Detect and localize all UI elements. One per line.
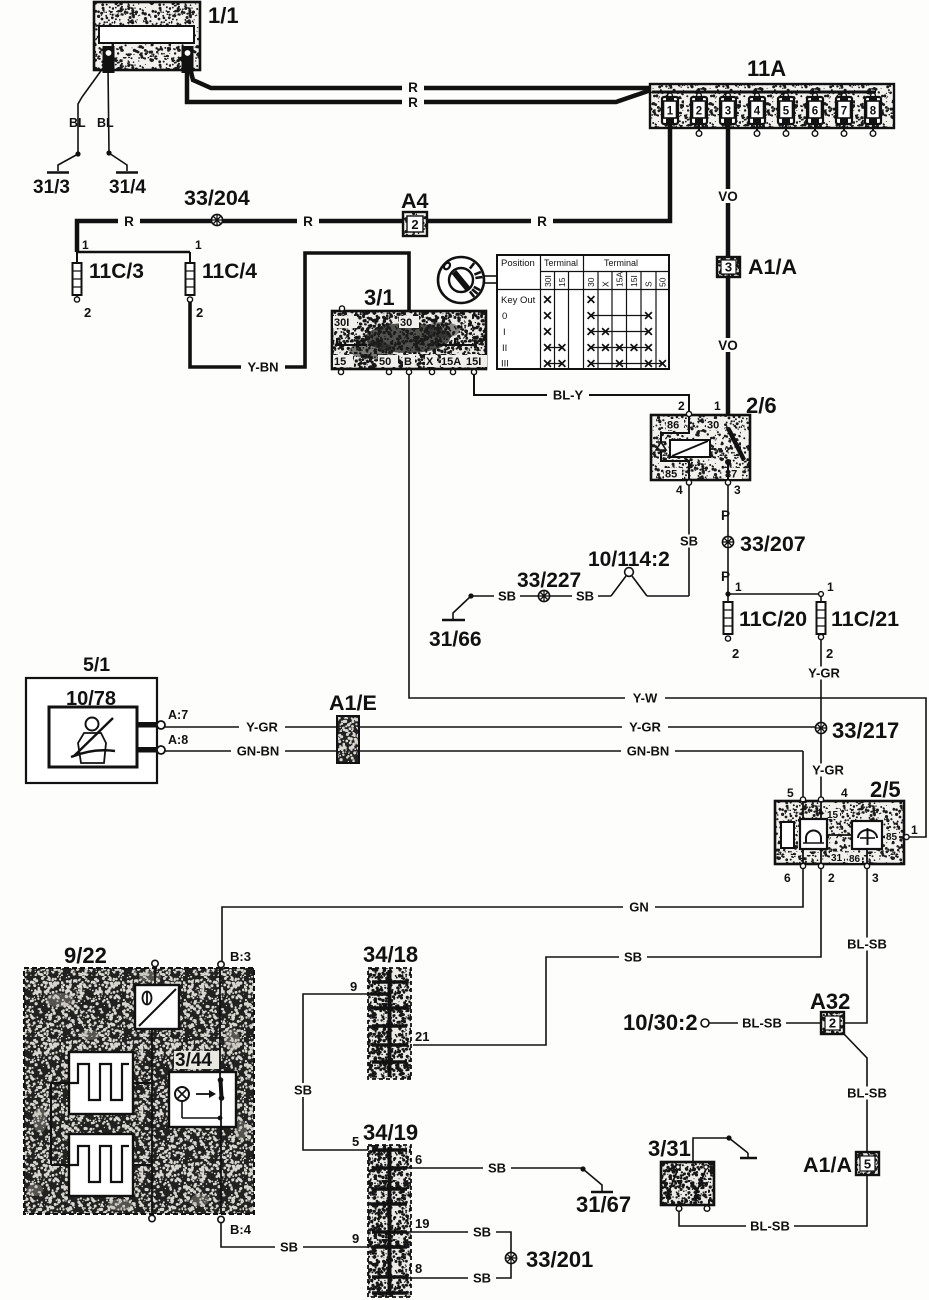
- label R (left): [118, 214, 140, 229]
- label SB (vertical wire): [677, 534, 701, 549]
- svg-text:BL: BL: [97, 116, 114, 130]
- svg-text:33/207: 33/207: [740, 532, 806, 556]
- connector 11C/3: [73, 252, 144, 320]
- svg-text:A32: A32: [810, 989, 850, 1014]
- svg-text:11C/3: 11C/3: [89, 260, 144, 283]
- 2/5 pin labels: [784, 786, 918, 885]
- svg-text:15: 15: [334, 356, 346, 368]
- svg-text:31/66: 31/66: [429, 628, 482, 651]
- label BL-SB (10/30:2): [738, 1016, 786, 1031]
- svg-text:50: 50: [379, 356, 391, 368]
- svg-text:15: 15: [557, 277, 567, 287]
- svg-text:5: 5: [787, 786, 794, 800]
- svg-text:3/44: 3/44: [175, 1050, 212, 1071]
- svg-text:11C/20: 11C/20: [739, 607, 807, 631]
- wire BL-SB A1/A to 3/31: [679, 1175, 867, 1226]
- svg-text:2/6: 2/6: [746, 393, 777, 418]
- svg-text:2: 2: [696, 106, 702, 118]
- wire BL-Y 3/1:15I to 2/6:2: [474, 374, 689, 412]
- svg-text:B:3: B:3: [230, 949, 251, 964]
- wire VO fuse 3 to A1/A: [726, 124, 731, 257]
- wire SB B:4 to 34/19:9: [221, 1223, 367, 1247]
- svg-text:2: 2: [84, 305, 91, 320]
- svg-text:11C/21: 11C/21: [831, 607, 899, 631]
- svg-text:SB: SB: [473, 1225, 491, 1240]
- svg-text:2: 2: [196, 305, 203, 320]
- label SB (right of 33/227): [572, 589, 598, 604]
- svg-text:30: 30: [400, 317, 412, 329]
- svg-text:Y-W: Y-W: [633, 691, 658, 706]
- heating element 1: [69, 1052, 133, 1114]
- wire SB 2/6:4 down: [688, 485, 690, 596]
- svg-text:BL: BL: [69, 116, 86, 130]
- fuse 2: [691, 92, 707, 136]
- svg-text:A1/A: A1/A: [748, 255, 797, 279]
- ground rail 34/19: [352, 1120, 429, 1297]
- warning lamp unit 10/78: [49, 688, 137, 767]
- wire GN-BN A:8 to 2/5:5: [165, 751, 803, 798]
- svg-text:86: 86: [667, 420, 679, 432]
- label BL-SB (mid): [843, 1086, 891, 1101]
- 2/6 relay coil: [661, 416, 710, 480]
- svg-text:8: 8: [415, 1261, 422, 1276]
- label BL-SB (lower): [746, 1219, 794, 1234]
- svg-text:4: 4: [841, 786, 848, 800]
- svg-text:33/201: 33/201: [526, 1247, 593, 1272]
- 2/6 diode: [656, 442, 666, 450]
- svg-text:BL-Y: BL-Y: [553, 388, 584, 403]
- wire Y-W 3/1:B to 2/5:1: [409, 374, 926, 837]
- label SB (upper run): [619, 950, 647, 965]
- terminal B:3: [218, 949, 251, 968]
- wire SB 2/5:2 to 34/18:21: [413, 868, 821, 1045]
- fuse 3: [720, 92, 736, 124]
- battery 1/1: [94, 2, 200, 70]
- connector A4 pin 2: [401, 189, 429, 236]
- svg-text:15I: 15I: [629, 275, 639, 287]
- wire Y-GR A:7 to splice 33/217: [165, 726, 816, 728]
- 2/6 pin labels: [676, 399, 741, 497]
- terminal 10/30:2: [623, 1010, 709, 1035]
- svg-text:SB: SB: [473, 1271, 491, 1286]
- 2/6 pin 3 node: [725, 459, 731, 480]
- svg-text:15: 15: [827, 810, 839, 821]
- svg-text:10/30:2: 10/30:2: [623, 1010, 698, 1035]
- label SB (pin 6): [483, 1161, 511, 1176]
- 3/31 pin circles: [676, 1206, 710, 1212]
- svg-text:31: 31: [831, 853, 843, 864]
- label GN-BN (left): [231, 744, 285, 759]
- svg-text:34/18: 34/18: [363, 942, 418, 967]
- svg-text:X: X: [601, 281, 611, 287]
- svg-text:Y-BN: Y-BN: [247, 360, 278, 375]
- svg-text:30: 30: [586, 277, 596, 287]
- svg-text:15I: 15I: [466, 356, 481, 368]
- svg-text:BL-SB: BL-SB: [750, 1219, 790, 1234]
- svg-text:2: 2: [732, 646, 739, 661]
- wire VO A1/A to relay 2/6: [726, 277, 731, 428]
- label SB (left of 33/227): [494, 589, 520, 604]
- svg-text:Terminal: Terminal: [544, 258, 578, 268]
- svg-text:VO: VO: [718, 338, 738, 353]
- connector 11C/21: [817, 596, 900, 661]
- 3/31 switch to ground: [693, 1135, 757, 1162]
- label Y-GR: [802, 666, 846, 681]
- wire BL-SB 10/30:2 to A32: [709, 1022, 820, 1024]
- wire SB 34/19:6 to 31/67: [407, 1167, 583, 1169]
- fuse 8: [865, 92, 881, 136]
- svg-text:SB: SB: [294, 1083, 312, 1098]
- svg-text:33/227: 33/227: [517, 569, 581, 592]
- svg-text:II: II: [502, 343, 507, 354]
- fuse 4: [749, 92, 765, 136]
- label Y-GR (lower): [806, 763, 850, 778]
- seat belt icon: [71, 718, 115, 764]
- wire R battery to 11A (upper): [189, 64, 651, 88]
- splice 33/201: [505, 1247, 593, 1272]
- svg-text:30: 30: [707, 420, 719, 432]
- svg-text:B:4: B:4: [230, 1222, 252, 1237]
- svg-text:SB: SB: [498, 589, 516, 604]
- wire pins 1 of 11C/3-11C/4: [77, 238, 202, 252]
- svg-text:9: 9: [352, 1231, 359, 1246]
- label BL-Y: [547, 388, 589, 403]
- svg-text:31/3: 31/3: [33, 177, 70, 198]
- label BL-SB (upper): [843, 937, 891, 952]
- connector 11C/4: [186, 252, 258, 320]
- svg-text:VO: VO: [718, 189, 738, 204]
- svg-text:R: R: [408, 80, 418, 95]
- 3/1 bottom pin circles: [338, 369, 476, 374]
- label VO (upper): [715, 189, 741, 204]
- svg-text:SB: SB: [280, 1240, 298, 1255]
- 5/1 pin A:8: [137, 733, 188, 754]
- label R (mid): [297, 214, 319, 229]
- connector A1/A pin 3: [717, 255, 797, 279]
- thermostat top stub: [152, 960, 158, 985]
- svg-text:2: 2: [829, 1016, 836, 1031]
- bus wire inside 11A: [652, 91, 876, 94]
- ignition key symbol: [438, 257, 497, 303]
- label R (right): [531, 214, 553, 229]
- node junction 31/3: [75, 151, 80, 156]
- svg-text:BL-SB: BL-SB: [847, 937, 887, 952]
- svg-text:R: R: [537, 214, 547, 229]
- svg-text:4: 4: [676, 483, 683, 497]
- ground 31/67: [576, 1169, 631, 1217]
- svg-text:4: 4: [754, 106, 761, 118]
- svg-text:15A: 15A: [615, 272, 625, 287]
- svg-text:1: 1: [82, 238, 89, 252]
- svg-text:BL-SB: BL-SB: [847, 1086, 887, 1101]
- svg-text:31/67: 31/67: [576, 1192, 631, 1217]
- node junction: [468, 593, 473, 598]
- wire P to 11C/20: [721, 548, 730, 594]
- svg-text:34/19: 34/19: [363, 1120, 418, 1145]
- svg-text:10/78: 10/78: [66, 688, 116, 710]
- ignition switch 3/1: [332, 311, 486, 369]
- svg-text:P: P: [721, 508, 730, 523]
- label SB (pin 19): [468, 1225, 496, 1240]
- svg-text:Terminal: Terminal: [604, 258, 638, 268]
- terminal 10/114:2: [588, 548, 670, 596]
- svg-text:5/1: 5/1: [83, 654, 110, 676]
- buzzer relay 2/5: [775, 801, 904, 864]
- svg-text:8: 8: [870, 106, 877, 118]
- svg-text:85: 85: [665, 469, 677, 481]
- node junction: [580, 1166, 585, 1171]
- svg-text:2: 2: [826, 646, 833, 661]
- svg-text:31/4: 31/4: [109, 177, 146, 198]
- label SB (pin 8): [468, 1271, 496, 1286]
- svg-text:S: S: [644, 281, 654, 287]
- svg-text:A1/E: A1/E: [329, 691, 377, 715]
- svg-text:3: 3: [725, 106, 731, 118]
- svg-text:P: P: [721, 569, 730, 584]
- svg-text:Y-GR: Y-GR: [808, 666, 840, 681]
- svg-text:87: 87: [725, 469, 737, 481]
- svg-text:5: 5: [864, 1157, 871, 1172]
- svg-text:GN-BN: GN-BN: [627, 744, 670, 759]
- label SB (B:4 run): [275, 1240, 303, 1255]
- svg-text:50: 50: [658, 277, 668, 287]
- connector 11C/20: [724, 596, 808, 661]
- instrument cluster 5/1: [26, 654, 157, 783]
- svg-text:6: 6: [784, 871, 791, 885]
- splice 33/207: [722, 532, 805, 556]
- svg-text:11A: 11A: [747, 56, 786, 81]
- relay 2/6: [651, 415, 750, 480]
- wire R from fuse 1: [77, 124, 670, 252]
- ignition position table: [497, 255, 669, 370]
- svg-text:SB: SB: [624, 950, 642, 965]
- fuse 5: [778, 92, 794, 136]
- svg-text:R: R: [408, 95, 418, 110]
- wire to 10/114:2: [647, 595, 689, 597]
- heating element 2: [69, 1134, 133, 1196]
- svg-text:1: 1: [714, 399, 721, 413]
- thermostat: [135, 985, 179, 1029]
- svg-text:R: R: [303, 214, 313, 229]
- wire R battery to 11A (lower): [187, 64, 651, 102]
- ground 31/3: [33, 154, 78, 198]
- label Y-GR (left): [239, 720, 285, 735]
- node 11C/20-21 junction: [725, 580, 834, 597]
- table contact marks: [544, 296, 666, 367]
- fuse 7: [836, 92, 852, 136]
- wire SB splice to 34/19:8: [407, 1264, 511, 1278]
- ground 31/4: [109, 153, 146, 198]
- svg-text:3/1: 3/1: [364, 285, 395, 310]
- svg-text:GN-BN: GN-BN: [237, 744, 280, 759]
- label Y-W: [625, 691, 665, 706]
- connector A1/A pin 5: [803, 1152, 879, 1177]
- svg-text:2: 2: [678, 399, 685, 413]
- svg-text:1: 1: [827, 580, 834, 594]
- battery terminal B+: [183, 47, 193, 72]
- svg-text:15A: 15A: [441, 356, 461, 368]
- svg-text:6: 6: [415, 1152, 422, 1167]
- svg-text:Position: Position: [501, 258, 535, 269]
- svg-text:3: 3: [725, 260, 732, 275]
- 5/1 pin A:7: [137, 708, 188, 729]
- 2/6 internal labels: [664, 419, 742, 481]
- svg-text:2: 2: [828, 871, 835, 885]
- label SB (left run): [289, 1083, 317, 1098]
- 2/6 pin 2 circle: [686, 411, 691, 416]
- svg-text:1: 1: [735, 580, 742, 594]
- fusebox 11A: [650, 84, 894, 128]
- svg-text:11C/4: 11C/4: [202, 260, 257, 283]
- label GN: [623, 900, 655, 915]
- svg-text:SB: SB: [680, 534, 698, 549]
- node junction 31/4: [106, 150, 111, 155]
- 2/6 switch arm (terminal 30 to 87): [711, 428, 744, 460]
- svg-text:A4: A4: [401, 189, 429, 213]
- svg-text:1: 1: [911, 823, 918, 837]
- wire P 2/6:3 to splice: [721, 485, 730, 536]
- svg-text:21: 21: [415, 1029, 429, 1044]
- svg-text:33/204: 33/204: [184, 186, 250, 210]
- svg-text:6: 6: [812, 106, 818, 118]
- svg-text:Y-GR: Y-GR: [812, 763, 844, 778]
- svg-text:2/5: 2/5: [870, 777, 901, 802]
- svg-text:1/1: 1/1: [208, 3, 239, 28]
- label Y-GR (mid): [622, 720, 668, 735]
- ground rail 34/18: [350, 942, 429, 1079]
- svg-text:3/31: 3/31: [648, 1136, 691, 1161]
- svg-text:9: 9: [350, 979, 357, 994]
- seat belt switch 3/31: [648, 1136, 714, 1205]
- svg-text:A:8: A:8: [168, 733, 188, 747]
- svg-text:R: R: [124, 214, 134, 229]
- svg-text:30I: 30I: [334, 317, 349, 329]
- heater unit 9/22 (dashed): [24, 943, 254, 1214]
- label VO (lower): [715, 338, 741, 353]
- wire B:3 to B:4 through 3/44: [218, 968, 225, 1214]
- switch 3/44: [169, 1050, 236, 1127]
- svg-text:2: 2: [411, 217, 418, 232]
- svg-text:0: 0: [502, 311, 507, 322]
- svg-text:X: X: [426, 356, 434, 368]
- svg-text:A:7: A:7: [168, 708, 188, 722]
- wire BL to 31/4: [97, 68, 114, 152]
- wire SB 34/18:9 to 34/19:5: [303, 994, 370, 1150]
- svg-text:III: III: [501, 359, 509, 370]
- wire Y-BN 11C/4 to ignition switch 30: [190, 253, 409, 367]
- 3/1 pin 30I stub: [339, 306, 344, 311]
- svg-text:33/217: 33/217: [832, 718, 899, 743]
- terminal B:4: [218, 1216, 252, 1237]
- svg-text:9/22: 9/22: [64, 943, 107, 968]
- svg-text:7: 7: [841, 106, 847, 118]
- battery terminal B-: [104, 47, 114, 72]
- svg-text:A1/A: A1/A: [803, 1153, 852, 1177]
- svg-text:5: 5: [783, 106, 790, 118]
- svg-text:5: 5: [352, 1134, 359, 1149]
- svg-text:Key Out: Key Out: [501, 295, 536, 306]
- connector A32 pin 2: [810, 989, 850, 1034]
- svg-text:3: 3: [872, 871, 879, 885]
- element bus wires: [51, 1083, 152, 1165]
- svg-text:19: 19: [415, 1216, 429, 1231]
- 2/5 pin circles: [800, 797, 909, 869]
- 3/31 internals: [666, 1165, 709, 1203]
- svg-text:1: 1: [195, 238, 202, 252]
- svg-text:B: B: [404, 356, 412, 368]
- svg-text:10/114:2: 10/114:2: [588, 548, 670, 571]
- svg-text:GN: GN: [629, 900, 649, 915]
- wire Y-GR 33/217 to 2/5:4: [820, 734, 822, 798]
- svg-text:SB: SB: [488, 1161, 506, 1176]
- thermostat to bottom wire: [149, 1029, 155, 1222]
- svg-text:3: 3: [734, 483, 741, 497]
- wire BL to 31/3: [69, 68, 103, 152]
- wire GN 2/5:6 to B:3 rail: [222, 868, 803, 961]
- connector A1/E: [329, 691, 377, 763]
- wire BL-SB A32 to A1/A: [844, 1034, 867, 1152]
- wire Y-GR 11C/21 to 33/217: [820, 640, 822, 724]
- wire BL-SB 2/5:3 to A32: [845, 868, 867, 1023]
- svg-text:Y-GR: Y-GR: [629, 720, 661, 735]
- fuse 6: [807, 92, 823, 136]
- label GN-BN (mid): [621, 744, 675, 759]
- 3/1 terminal labels: [333, 316, 487, 368]
- label R upper: [402, 80, 424, 95]
- ground 31/66: [429, 596, 482, 651]
- wire SB 34/19:19 to splice: [407, 1232, 511, 1252]
- label R lower: [402, 95, 424, 110]
- svg-text:86: 86: [849, 854, 861, 865]
- splice 33/217: [815, 718, 899, 743]
- svg-text:1: 1: [667, 106, 674, 118]
- splice 33/204: [184, 186, 250, 226]
- svg-text:Y-GR: Y-GR: [246, 720, 278, 735]
- svg-text:30I: 30I: [543, 275, 553, 287]
- label Y-BN: [241, 360, 285, 375]
- splice 33/227: [517, 569, 581, 602]
- fuse 1: [662, 92, 678, 124]
- wire SB to splice 33/227: [471, 595, 611, 597]
- 2/5 internals: [781, 801, 904, 865]
- svg-text:I: I: [503, 327, 506, 338]
- 2/6 pin circles 4,3: [686, 480, 730, 485]
- svg-text:BL-SB: BL-SB: [742, 1016, 782, 1031]
- svg-text:85: 85: [886, 832, 898, 843]
